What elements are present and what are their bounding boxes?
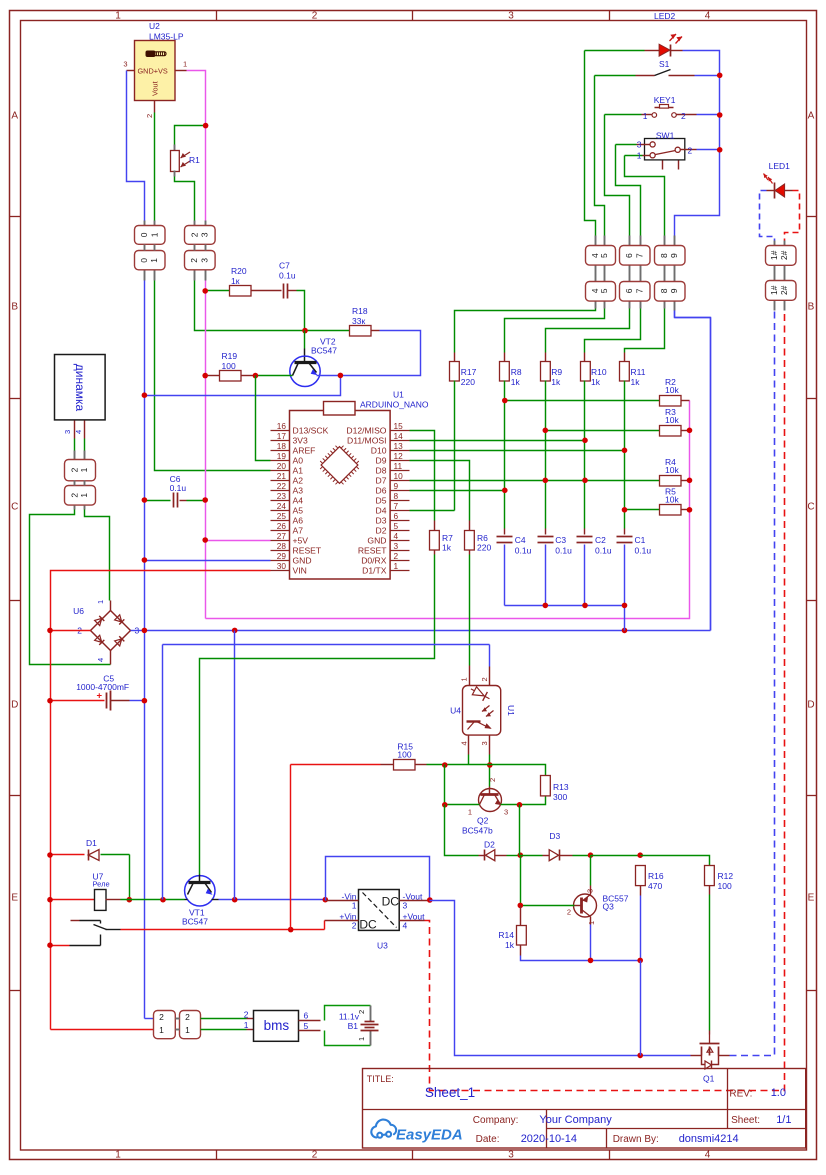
svg-text:2: 2: [69, 493, 79, 498]
svg-text:1/1: 1/1: [776, 1114, 791, 1126]
svg-text:R16: R16: [648, 871, 664, 881]
svg-text:SW1: SW1: [656, 130, 675, 140]
svg-text:C: C: [11, 502, 18, 513]
svg-text:1: 1: [352, 901, 357, 911]
svg-text:0.1u: 0.1u: [279, 271, 296, 281]
svg-text:30: 30: [277, 561, 287, 571]
svg-text:A7: A7: [293, 526, 304, 536]
svg-text:динамка: динамка: [73, 364, 87, 412]
svg-text:D0/RX: D0/RX: [361, 556, 387, 566]
svg-text:12: 12: [394, 451, 404, 461]
svg-text:BC547: BC547: [311, 346, 337, 356]
svg-text:B1: B1: [348, 1021, 359, 1031]
svg-text:Date:: Date:: [476, 1134, 500, 1145]
svg-text:A1: A1: [293, 466, 304, 476]
svg-text:A2: A2: [293, 476, 304, 486]
svg-text:1: 1: [637, 151, 642, 161]
svg-text:C1: C1: [635, 535, 646, 545]
svg-text:U4: U4: [450, 706, 461, 716]
svg-text:0: 0: [139, 258, 149, 263]
svg-text:Q1: Q1: [703, 1074, 715, 1084]
svg-text:1: 1: [244, 1020, 249, 1030]
svg-text:16: 16: [277, 421, 287, 431]
svg-text:15: 15: [394, 421, 404, 431]
svg-text:0.1u: 0.1u: [555, 546, 572, 556]
svg-text:A0: A0: [293, 456, 304, 466]
svg-text:LED2: LED2: [654, 11, 676, 21]
svg-text:D3: D3: [376, 516, 387, 526]
svg-text:6: 6: [624, 253, 634, 258]
svg-text:1#: 1#: [769, 250, 779, 260]
svg-text:1: 1: [394, 561, 399, 571]
svg-text:0.1u: 0.1u: [635, 546, 652, 556]
svg-text:1k: 1k: [631, 377, 641, 387]
svg-text:D1/TX: D1/TX: [362, 566, 387, 576]
svg-text:C3: C3: [555, 535, 566, 545]
svg-text:R18: R18: [352, 306, 368, 316]
svg-text:4: 4: [394, 531, 399, 541]
svg-text:9: 9: [669, 288, 679, 293]
svg-text:EasyEDA: EasyEDA: [396, 1127, 463, 1144]
svg-text:1: 1: [79, 493, 89, 498]
svg-text:4: 4: [705, 11, 711, 22]
svg-text:1k: 1k: [591, 377, 601, 387]
svg-text:1: 1: [357, 1037, 366, 1041]
svg-text:2: 2: [159, 1012, 164, 1022]
svg-text:D11/MOSI: D11/MOSI: [347, 436, 386, 446]
svg-text:R13: R13: [553, 782, 569, 792]
svg-text:0.1u: 0.1u: [170, 483, 187, 493]
svg-text:7: 7: [635, 288, 645, 293]
svg-text:300: 300: [553, 792, 567, 802]
svg-text:10k: 10k: [665, 415, 679, 425]
svg-text:7: 7: [394, 501, 399, 511]
svg-text:6: 6: [624, 288, 634, 293]
svg-text:U1: U1: [506, 705, 516, 716]
svg-text:8: 8: [659, 288, 669, 293]
svg-text:D6: D6: [376, 486, 387, 496]
svg-text:D8: D8: [376, 466, 387, 476]
svg-text:Company:: Company:: [473, 1115, 519, 1126]
svg-text:220: 220: [461, 377, 475, 387]
svg-text:GND: GND: [367, 536, 386, 546]
svg-text:LED1: LED1: [769, 161, 791, 171]
svg-text:28: 28: [277, 541, 287, 551]
svg-text:2: 2: [185, 1012, 190, 1022]
svg-text:24: 24: [277, 501, 287, 511]
svg-text:RESET: RESET: [358, 546, 387, 556]
svg-text:Sheet_1: Sheet_1: [425, 1085, 475, 1100]
svg-text:A5: A5: [293, 506, 304, 516]
svg-text:3: 3: [480, 741, 489, 745]
svg-text:1: 1: [587, 921, 596, 925]
svg-text:11: 11: [394, 461, 403, 471]
svg-text:470: 470: [648, 881, 662, 891]
svg-text:6: 6: [394, 511, 399, 521]
svg-text:3: 3: [394, 541, 399, 551]
svg-text:R20: R20: [231, 266, 247, 276]
svg-text:GND: GND: [293, 556, 312, 566]
svg-text:LM35-LP: LM35-LP: [149, 32, 184, 42]
svg-text:E: E: [11, 893, 18, 904]
svg-text:22: 22: [277, 481, 287, 491]
svg-text:1000-4700mF: 1000-4700mF: [76, 682, 129, 692]
svg-text:2020-10-14: 2020-10-14: [521, 1133, 577, 1145]
svg-text:GND+VS: GND+VS: [138, 67, 168, 76]
svg-text:S1: S1: [659, 59, 670, 69]
svg-text:4: 4: [74, 430, 83, 434]
svg-text:5: 5: [599, 288, 609, 293]
svg-text:C7: C7: [279, 261, 290, 271]
svg-text:Sheet:: Sheet:: [731, 1115, 760, 1126]
svg-text:2: 2: [312, 11, 318, 22]
svg-text:2: 2: [488, 778, 497, 782]
svg-text:5: 5: [394, 521, 399, 531]
svg-text:23: 23: [277, 491, 287, 501]
svg-text:RESET: RESET: [293, 546, 322, 556]
svg-text:R1: R1: [189, 155, 200, 165]
svg-text:1.0: 1.0: [771, 1087, 786, 1099]
svg-text:1: 1: [643, 111, 648, 121]
svg-text:A: A: [808, 111, 815, 122]
svg-text:2#: 2#: [779, 250, 789, 260]
svg-text:1: 1: [468, 808, 472, 817]
svg-text:D: D: [807, 700, 814, 711]
svg-text:1k: 1k: [551, 377, 561, 387]
svg-text:Drawn By:: Drawn By:: [613, 1134, 659, 1145]
svg-text:VIN: VIN: [293, 566, 307, 576]
svg-text:D5: D5: [376, 496, 387, 506]
svg-text:2: 2: [357, 1010, 366, 1014]
svg-text:A6: A6: [293, 516, 304, 526]
svg-text:3: 3: [200, 258, 210, 263]
svg-text:220: 220: [477, 543, 491, 553]
svg-text:2: 2: [69, 467, 79, 472]
svg-text:100: 100: [397, 750, 411, 760]
svg-text:C4: C4: [515, 535, 526, 545]
svg-text:20: 20: [277, 461, 287, 471]
svg-text:+5V: +5V: [293, 536, 309, 546]
svg-text:1к: 1к: [231, 276, 240, 286]
svg-text:donsmi4214: donsmi4214: [679, 1133, 739, 1145]
svg-text:100: 100: [718, 881, 732, 891]
svg-text:R12: R12: [718, 871, 734, 881]
svg-text:E: E: [808, 893, 815, 904]
svg-text:+: +: [96, 691, 102, 702]
svg-text:0.1u: 0.1u: [515, 546, 532, 556]
svg-text:1: 1: [159, 1025, 164, 1035]
svg-text:3: 3: [508, 11, 514, 22]
svg-text:17: 17: [277, 431, 287, 441]
svg-text:100: 100: [222, 361, 236, 371]
svg-text:A4: A4: [293, 496, 304, 506]
svg-text:6: 6: [304, 1011, 309, 1021]
svg-text:KEY1: KEY1: [654, 95, 676, 105]
svg-text:25: 25: [277, 511, 287, 521]
svg-text:D3: D3: [549, 831, 560, 841]
svg-text:3: 3: [403, 901, 408, 911]
svg-text:10k: 10k: [665, 495, 679, 505]
svg-text:2: 2: [480, 677, 489, 681]
svg-text:3: 3: [123, 60, 127, 69]
svg-text:B: B: [11, 302, 18, 313]
svg-text:21: 21: [277, 471, 287, 481]
svg-text:1: 1: [149, 232, 159, 237]
svg-text:D12/MISO: D12/MISO: [346, 426, 386, 436]
svg-text:2: 2: [189, 232, 199, 237]
svg-text:1: 1: [115, 1150, 121, 1161]
svg-text:5: 5: [304, 1021, 309, 1031]
svg-text:4: 4: [460, 741, 469, 745]
svg-text:TITLE:: TITLE:: [367, 1074, 394, 1084]
svg-text:U6: U6: [73, 606, 84, 616]
svg-text:C: C: [807, 502, 814, 513]
svg-text:4: 4: [403, 921, 408, 931]
svg-text:0.1u: 0.1u: [595, 546, 612, 556]
svg-text:2: 2: [145, 114, 154, 118]
svg-text:U1: U1: [393, 390, 404, 400]
svg-text:13: 13: [394, 441, 404, 451]
svg-text:1k: 1k: [442, 543, 452, 553]
svg-text:2: 2: [312, 1150, 318, 1161]
svg-text:R14: R14: [498, 930, 514, 940]
svg-text:D4: D4: [376, 506, 387, 516]
svg-text:Q2: Q2: [477, 816, 489, 826]
svg-text:D2: D2: [484, 840, 495, 850]
svg-text:3: 3: [508, 1150, 514, 1161]
svg-text:D2: D2: [376, 526, 387, 536]
svg-text:10: 10: [394, 471, 404, 481]
svg-text:4: 4: [96, 658, 105, 662]
svg-text:AREF: AREF: [293, 446, 316, 456]
svg-text:8: 8: [659, 253, 669, 258]
svg-text:2: 2: [352, 921, 357, 931]
svg-text:3V3: 3V3: [293, 436, 309, 446]
svg-text:2: 2: [681, 111, 686, 121]
svg-text:0: 0: [139, 232, 149, 237]
svg-text:1k: 1k: [505, 940, 515, 950]
svg-text:R9: R9: [551, 367, 562, 377]
svg-text:2: 2: [567, 908, 571, 917]
svg-text:27: 27: [277, 531, 287, 541]
svg-text:D10: D10: [371, 446, 387, 456]
svg-text:1: 1: [149, 258, 159, 263]
svg-text:ARDUINO_NANO: ARDUINO_NANO: [360, 400, 429, 410]
svg-text:bms: bms: [264, 1018, 290, 1033]
svg-text:26: 26: [277, 521, 287, 531]
svg-text:7: 7: [635, 253, 645, 258]
svg-text:29: 29: [277, 551, 287, 561]
svg-text:R7: R7: [442, 533, 453, 543]
svg-text:3: 3: [586, 889, 595, 893]
svg-text:BC547: BC547: [182, 917, 208, 927]
svg-text:10k: 10k: [665, 385, 679, 395]
svg-text:Your Company: Your Company: [539, 1114, 612, 1126]
svg-text:19: 19: [277, 451, 287, 461]
svg-text:3: 3: [200, 232, 210, 237]
svg-text:1: 1: [183, 60, 187, 69]
svg-text:2#: 2#: [779, 285, 789, 295]
svg-text:2: 2: [394, 551, 399, 561]
svg-text:Q3: Q3: [603, 902, 615, 912]
svg-text:D: D: [11, 700, 18, 711]
svg-text:R10: R10: [591, 367, 607, 377]
svg-text:DC: DC: [359, 918, 377, 932]
svg-text:DC: DC: [382, 895, 400, 909]
svg-text:1: 1: [96, 600, 105, 604]
svg-text:A3: A3: [293, 486, 304, 496]
svg-text:4: 4: [705, 1150, 711, 1161]
svg-text:1#: 1#: [769, 285, 779, 295]
svg-text:9: 9: [669, 253, 679, 258]
svg-text:8: 8: [394, 491, 399, 501]
svg-text:2: 2: [189, 258, 199, 263]
svg-text:2: 2: [244, 1010, 249, 1020]
svg-text:Vout: Vout: [151, 81, 160, 96]
svg-text:1k: 1k: [511, 377, 521, 387]
svg-text:3: 3: [504, 808, 508, 817]
svg-text:R6: R6: [477, 533, 488, 543]
svg-text:33к: 33к: [352, 316, 365, 326]
svg-text:A: A: [11, 111, 18, 122]
svg-text:C2: C2: [595, 535, 606, 545]
svg-text:B: B: [808, 302, 815, 313]
svg-text:BC547b: BC547b: [462, 826, 493, 836]
svg-text:D9: D9: [376, 456, 387, 466]
svg-text:U2: U2: [149, 21, 160, 31]
svg-text:3: 3: [637, 140, 642, 150]
svg-text:5: 5: [599, 253, 609, 258]
svg-text:9: 9: [394, 481, 399, 491]
svg-text:18: 18: [277, 441, 287, 451]
svg-text:3: 3: [63, 430, 72, 434]
svg-text:REV:: REV:: [729, 1089, 752, 1100]
svg-text:D13/SCK: D13/SCK: [293, 426, 329, 436]
svg-text:D1: D1: [86, 838, 97, 848]
svg-text:R11: R11: [631, 367, 646, 377]
svg-text:10k: 10k: [665, 465, 679, 475]
svg-text:2: 2: [688, 146, 693, 156]
svg-text:R8: R8: [511, 367, 522, 377]
svg-text:R17: R17: [461, 367, 477, 377]
svg-text:1: 1: [79, 467, 89, 472]
svg-text:1: 1: [115, 11, 121, 22]
svg-text:D7: D7: [376, 476, 387, 486]
svg-text:R19: R19: [222, 351, 238, 361]
svg-text:1: 1: [460, 677, 469, 681]
svg-text:U3: U3: [377, 941, 388, 951]
svg-text:1: 1: [185, 1025, 190, 1035]
svg-text:Реле: Реле: [93, 880, 110, 889]
svg-text:14: 14: [394, 431, 404, 441]
